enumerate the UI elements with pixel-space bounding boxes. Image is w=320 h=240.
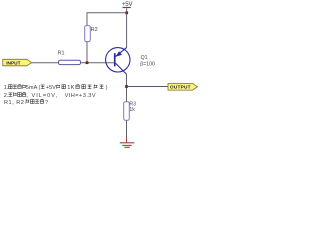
resistor R2 — [85, 26, 98, 42]
resistor R3 — [124, 102, 136, 121]
junction top rail — [125, 11, 128, 14]
wire input to base — [32, 62, 114, 64]
wire R3 to ground — [126, 120, 128, 137]
svg-text:R1, R2: R1, R2 — [4, 100, 24, 106]
svg-text:, VIL=0V,: , VIL=0V, — [26, 93, 58, 99]
svg-text:β=100: β=100 — [140, 62, 155, 68]
note line 1 — [4, 84, 108, 91]
port OUTPUT — [168, 83, 197, 90]
svg-text:OUTPUT: OUTPUT — [170, 85, 191, 91]
transistor Q1 — [106, 48, 155, 75]
junction base / R2 — [86, 61, 89, 64]
svg-text:1k: 1k — [129, 107, 135, 113]
svg-text:R2: R2 — [91, 27, 98, 33]
junction output — [125, 85, 128, 88]
resistor R1 — [58, 50, 81, 64]
svg-text:?: ? — [45, 100, 48, 106]
collector lead with arrow — [116, 48, 127, 57]
svg-text:2.: 2. — [4, 93, 9, 99]
note line 3 — [4, 99, 48, 106]
wire R2 bottom to base rail — [86, 42, 88, 63]
note line 2 — [4, 92, 96, 99]
svg-text:Q1: Q1 — [141, 55, 148, 61]
power +5V — [122, 2, 133, 8]
port INPUT — [3, 59, 32, 66]
svg-text:VIH=+3.3V: VIH=+3.3V — [65, 93, 96, 99]
svg-text:1.: 1. — [4, 85, 9, 91]
svg-text:1K: 1K — [67, 85, 74, 91]
wire +5V to collector — [126, 8, 128, 47]
svg-text:+5V: +5V — [46, 85, 56, 91]
svg-text:R1: R1 — [58, 50, 65, 56]
emitter lead — [116, 63, 127, 74]
wire emitter down — [126, 74, 128, 102]
wire to OUTPUT port — [127, 86, 169, 88]
svg-text:INPUT: INPUT — [6, 61, 20, 67]
ground — [120, 143, 135, 148]
svg-text:): ) — [106, 85, 108, 91]
svg-text:5mA (: 5mA ( — [26, 85, 41, 91]
wire top rail to R2 — [87, 13, 127, 26]
